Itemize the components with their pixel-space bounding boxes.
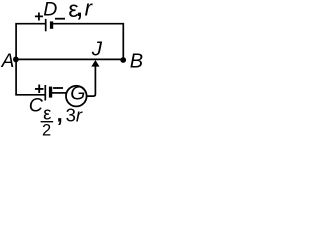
battery C long plate [44,85,46,101]
battery D long plate [45,19,47,31]
wire top horizontal left segment [15,23,45,25]
battery D minus sign [55,18,65,20]
svg-text:J: J [91,38,103,61]
svg-text:,: , [57,102,63,127]
svg-text:+: + [34,8,43,25]
wire right vertical to B [122,23,124,60]
wire top horizontal right segment [53,23,123,25]
svg-text:A: A [1,51,15,72]
svg-text:D: D [43,0,57,20]
wire middle horizontal A-B [16,58,123,60]
wire galvanometer to jockey riser [87,67,95,97]
svg-text:3r: 3r [66,104,83,125]
wire battery C to galvanometer [52,92,66,94]
galvanometer G circle [66,86,87,107]
svg-text:G: G [70,83,85,105]
svg-text:B: B [130,50,143,72]
battery D short thick plate [50,21,53,28]
wire bottom horizontal left segment [15,94,45,96]
svg-text:ε: ε [43,102,51,123]
fraction bar [41,121,54,122]
svg-text:2: 2 [42,122,51,140]
svg-text:,: , [76,0,82,21]
battery C minus sign [53,87,63,89]
battery C short thick plate [49,87,52,98]
node B [120,57,126,63]
node A [13,57,19,63]
svg-text:C: C [29,95,44,117]
wire left vertical [15,24,17,95]
jockey arrow head [91,60,99,67]
